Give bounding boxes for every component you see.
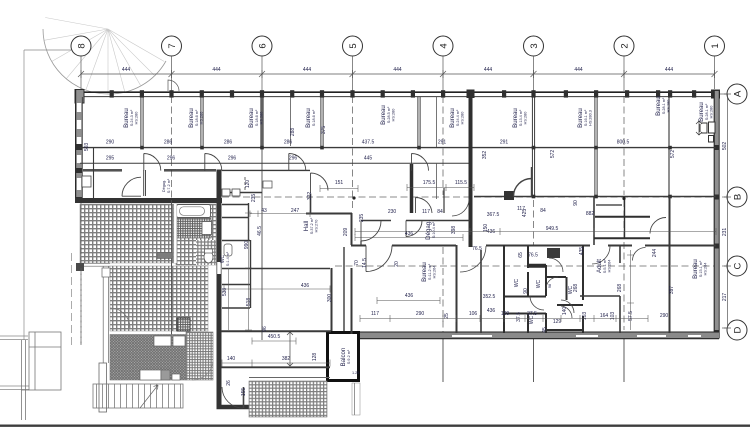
wall y331 left section <box>221 330 331 332</box>
door hall east <box>361 221 381 241</box>
svg-text:S:37.2 m²: S:37.2 m² <box>310 217 314 234</box>
grid line C <box>335 265 727 267</box>
svg-text:286: 286 <box>284 140 293 146</box>
svg-text:84: 84 <box>540 208 546 214</box>
svg-text:HS:280: HS:280 <box>135 112 139 125</box>
svg-text:572: 572 <box>670 150 676 159</box>
svg-text:117: 117 <box>422 209 430 215</box>
dims row y159 <box>106 156 373 162</box>
grid line 4 <box>442 56 444 382</box>
svg-text:70: 70 <box>354 260 360 266</box>
svg-text:290: 290 <box>660 313 669 319</box>
degag corridor label <box>162 178 171 193</box>
svg-text:291: 291 <box>438 140 447 146</box>
svg-text:445: 445 <box>364 156 373 162</box>
svg-text:949.5: 949.5 <box>546 226 559 232</box>
svg-text:WC: WC <box>514 278 520 287</box>
wall y220 x373-470 <box>361 220 470 222</box>
middle dims <box>227 180 669 362</box>
svg-text:S:18.6 m²: S:18.6 m² <box>312 109 316 126</box>
dim line y231 long <box>355 231 716 233</box>
grid line 6 <box>261 56 263 340</box>
svg-text:26: 26 <box>226 380 232 386</box>
grid bubble D <box>727 320 747 340</box>
svg-text:117: 117 <box>371 311 379 317</box>
office partition x322 <box>321 97 323 146</box>
right-section office front wall y197 <box>474 195 716 199</box>
svg-text:Bureau: Bureau <box>698 102 705 122</box>
svg-text:Balcon: Balcon <box>340 348 347 367</box>
svg-text:20: 20 <box>394 261 400 267</box>
svg-text:Bureau: Bureau <box>188 108 195 128</box>
wall x361 lower stub <box>360 241 362 246</box>
svg-text:HS:270: HS:270 <box>315 220 319 233</box>
top exterior window band <box>75 90 720 104</box>
door arc in terrace <box>110 308 130 328</box>
degag label 2 <box>0 0 1 1</box>
svg-text:140: 140 <box>227 356 236 362</box>
wall x457 vertical <box>456 245 458 333</box>
property line vertical left <box>23 50 25 340</box>
lower tile strip right <box>186 332 213 380</box>
svg-text:444: 444 <box>484 67 493 73</box>
svg-text:HS:280: HS:280 <box>200 112 204 125</box>
svg-text:Bureau: Bureau <box>692 259 699 279</box>
svg-text:444: 444 <box>393 67 402 73</box>
wc toilet <box>204 251 213 263</box>
washer appliance <box>202 222 212 235</box>
grid line 7 <box>171 56 173 380</box>
svg-text:90: 90 <box>573 200 579 206</box>
bureau label A1 right <box>655 96 671 116</box>
svg-text:Bureau: Bureau <box>380 105 387 125</box>
svg-text:HS:264: HS:264 <box>608 260 612 273</box>
svg-text:437.5: 437.5 <box>362 140 375 146</box>
svg-text:290: 290 <box>106 140 115 146</box>
svg-text:322: 322 <box>307 192 313 201</box>
svg-text:B: B <box>733 194 744 200</box>
svg-text:37.5: 37.5 <box>527 311 537 317</box>
svg-text:120: 120 <box>245 180 251 189</box>
thick wall x411 degag <box>410 164 414 213</box>
svg-text:444: 444 <box>574 67 583 73</box>
walkway band between terraces <box>80 263 110 266</box>
svg-text:436: 436 <box>487 308 496 314</box>
svg-text:268: 268 <box>573 284 579 293</box>
hall south wall y268 <box>222 268 330 270</box>
corridor lower wall left <box>83 170 216 171</box>
bathtub <box>177 205 211 218</box>
svg-text:S:7.2 m²: S:7.2 m² <box>167 178 171 193</box>
thick wall x471 <box>469 91 473 247</box>
bottom-left landing structure <box>0 336 29 390</box>
dim line y318 <box>360 318 648 320</box>
svg-text:43: 43 <box>261 208 267 214</box>
svg-text:Bureau: Bureau <box>655 96 662 116</box>
svg-text:25: 25 <box>444 313 450 319</box>
svg-text:444: 444 <box>122 67 131 73</box>
wall x331 vertical <box>331 268 333 331</box>
svg-text:S:28.1 m²: S:28.1 m² <box>662 97 666 114</box>
svg-text:503: 503 <box>84 143 90 152</box>
svg-text:990: 990 <box>244 241 250 250</box>
bottom exterior wall right <box>330 332 719 339</box>
svg-text:572: 572 <box>550 150 556 159</box>
svg-text:D: D <box>733 326 744 333</box>
door room S2 <box>633 248 646 261</box>
svg-text:S:28.5 m²: S:28.5 m² <box>387 106 391 123</box>
grid line 3 <box>533 56 535 382</box>
grid line 8 over hatch <box>80 205 82 345</box>
white furniture lower terrace <box>154 336 171 346</box>
svg-text:397: 397 <box>669 286 675 295</box>
hall west wall upper <box>222 192 262 194</box>
overhang dashed line left <box>71 253 73 345</box>
corridor end wall x93 <box>93 148 95 198</box>
svg-text:502: 502 <box>722 142 728 151</box>
bureau label SW <box>421 262 437 282</box>
corridor fixture box <box>82 176 91 187</box>
door top-middle small arc <box>168 80 179 91</box>
right exterior wall <box>714 90 719 339</box>
dim line 436 mid <box>355 234 463 241</box>
svg-text:HS:280: HS:280 <box>260 112 264 125</box>
fan sight lines top-left <box>44 18 164 95</box>
svg-text:155: 155 <box>241 388 247 397</box>
glazing line x436 <box>436 96 438 199</box>
balcon box <box>328 333 360 381</box>
bureau labels top band <box>123 102 714 128</box>
svg-text:8: 8 <box>77 43 88 48</box>
svg-text:7: 7 <box>167 43 178 48</box>
svg-text:A: A <box>733 90 744 97</box>
furniture top-right (radiator boxes) <box>696 121 715 142</box>
middle vertical dims <box>222 180 675 397</box>
dim line y340 "450.5" <box>252 338 296 345</box>
svg-text:352.5: 352.5 <box>483 294 496 300</box>
svg-text:HS:280: HS:280 <box>392 109 396 122</box>
svg-text:164: 164 <box>600 313 609 319</box>
grid line 8 <box>80 56 82 345</box>
bathroom lower dense tiles <box>196 240 216 265</box>
door office3 <box>412 154 429 171</box>
thick pier at x466-474 top <box>467 90 475 99</box>
svg-text:115.5: 115.5 <box>455 180 467 186</box>
small room walls left of hall <box>222 203 251 308</box>
svg-text:S:18.6 m²: S:18.6 m² <box>255 109 259 126</box>
svg-text:291: 291 <box>500 140 509 146</box>
door corridor left <box>122 177 141 196</box>
svg-text:518: 518 <box>246 298 252 307</box>
door at grid3 down <box>514 167 532 197</box>
svg-text:150: 150 <box>483 224 489 233</box>
door sub-room <box>650 218 666 234</box>
svg-text:S:13.4 m²: S:13.4 m² <box>519 109 523 126</box>
svg-text:800.5: 800.5 <box>617 140 630 146</box>
office partition x262 <box>261 97 263 146</box>
wall x481 vertical <box>480 250 482 333</box>
grid bubble 8 <box>71 36 91 56</box>
svg-text:375: 375 <box>321 126 327 135</box>
svg-text:96: 96 <box>262 326 268 332</box>
wc label left <box>220 251 230 266</box>
door office2 <box>205 154 222 171</box>
dark bench region A edge <box>157 253 172 259</box>
svg-text:444: 444 <box>303 67 312 73</box>
small wall y296 x580-616 <box>580 295 620 297</box>
svg-text:230: 230 <box>388 209 397 215</box>
office partition x419 <box>418 97 420 146</box>
svg-text:367.5: 367.5 <box>487 212 500 218</box>
door degag west <box>416 197 433 213</box>
svg-text:286: 286 <box>224 140 233 146</box>
door room SW <box>460 246 486 272</box>
office partition x533 (right section) <box>532 97 534 196</box>
svg-text:Bureau: Bureau <box>512 108 519 128</box>
grid line 5 <box>352 56 354 210</box>
WC cubicle walls <box>504 245 583 333</box>
white box walkway <box>102 268 110 277</box>
small fixtures above terrace wall <box>222 189 240 196</box>
stairs strip <box>93 384 183 408</box>
dims row y143 <box>106 140 630 146</box>
svg-text:286: 286 <box>164 140 173 146</box>
door bottom-left exit <box>222 387 244 408</box>
svg-text:209: 209 <box>343 228 349 237</box>
svg-text:45: 45 <box>542 327 548 333</box>
svg-text:14.5: 14.5 <box>362 258 368 268</box>
wall x670 vertical <box>669 196 671 333</box>
door wc small2 <box>561 300 574 313</box>
lower diagonal terrace <box>110 335 186 381</box>
svg-text:HS:280.3: HS:280.3 <box>589 110 593 126</box>
svg-text:175.5: 175.5 <box>423 180 436 186</box>
door right corridor <box>452 199 469 216</box>
dark pillar <box>177 318 190 331</box>
svg-text:57.5: 57.5 <box>628 311 634 321</box>
svg-text:290: 290 <box>416 311 425 317</box>
terrace tile area upper <box>80 204 176 263</box>
bureau label SE <box>692 259 708 279</box>
svg-text:352: 352 <box>482 151 488 160</box>
svg-text:S:15.1 m²: S:15.1 m² <box>699 260 703 277</box>
svg-text:235: 235 <box>251 194 257 203</box>
svg-text:90: 90 <box>523 288 529 294</box>
svg-text:3: 3 <box>529 43 540 48</box>
inner lines y377 <box>249 377 330 379</box>
bottom-right terrace tiles <box>249 381 327 417</box>
svg-text:140: 140 <box>562 307 568 316</box>
svg-text:436: 436 <box>301 283 310 289</box>
wc fixture left <box>224 244 232 256</box>
svg-text:2: 2 <box>620 43 631 48</box>
svg-text:S:16.1 m²: S:16.1 m² <box>584 109 588 126</box>
dim line x630 <box>627 250 634 330</box>
svg-text:76.5: 76.5 <box>528 253 538 259</box>
dim line y188 "151" <box>320 185 358 192</box>
corridor second line <box>80 162 470 164</box>
svg-text:1.25: 1.25 <box>352 371 359 375</box>
hall north wall y213 <box>306 213 352 215</box>
svg-text:65: 65 <box>518 252 524 258</box>
grid line 2 <box>623 56 625 382</box>
svg-text:46.5: 46.5 <box>257 226 263 236</box>
svg-text:296: 296 <box>228 156 237 162</box>
grid line 7 over hatch <box>171 200 173 377</box>
bottom separator line <box>0 425 750 427</box>
adult label <box>596 258 612 273</box>
svg-text:S:9.2 m²: S:9.2 m² <box>347 349 351 364</box>
svg-text:S:28.1 m²: S:28.1 m² <box>705 103 709 120</box>
svg-text:S:11.2 m²: S:11.2 m² <box>428 263 432 280</box>
svg-text:S:24.3 m²: S:24.3 m² <box>130 109 134 126</box>
degag label <box>425 220 436 240</box>
dim vertical x228 <box>228 268 230 330</box>
grid line 1 <box>714 56 716 89</box>
strip below balcon <box>352 383 360 415</box>
sub-room walls right corridor <box>594 199 650 238</box>
grid bubble 1 <box>705 36 725 56</box>
wall x594 vertical corridor <box>593 197 595 245</box>
mid-left vertical thick wall <box>217 170 222 410</box>
left exterior wall <box>76 90 83 204</box>
right dimension chain <box>724 94 731 328</box>
door wc small <box>530 296 544 310</box>
dim line y362 bottom-left <box>222 362 330 364</box>
vertical dims top band <box>84 126 676 160</box>
office partition x670 <box>668 97 670 196</box>
grid bubble 5 <box>343 36 363 56</box>
wall x344 vertical <box>343 247 345 331</box>
svg-text:HS:264: HS:264 <box>704 263 708 276</box>
door office2b <box>289 154 306 171</box>
svg-text:109: 109 <box>501 311 510 317</box>
svg-text:398: 398 <box>451 226 457 235</box>
svg-text:882: 882 <box>586 211 595 217</box>
dim line 436 hall <box>224 286 330 293</box>
svg-text:382: 382 <box>282 356 291 362</box>
dim vertical x248 <box>248 210 250 330</box>
svg-text:HS:280: HS:280 <box>667 100 671 113</box>
dim line y300 <box>377 297 440 304</box>
svg-text:103: 103 <box>582 312 588 321</box>
door swing arc top-left <box>43 29 166 94</box>
door room S1 <box>592 246 610 264</box>
svg-text:Bureau: Bureau <box>248 108 255 128</box>
svg-text:HS:280: HS:280 <box>461 112 465 125</box>
dim line 247 <box>250 211 310 218</box>
wall x144 lower <box>144 170 146 196</box>
svg-text:444: 444 <box>665 67 674 73</box>
small fixtures near hall top <box>263 181 272 188</box>
svg-text:Adult: Adult <box>596 259 603 273</box>
svg-text:1: 1 <box>710 43 721 48</box>
vertical dim x290 <box>287 332 293 366</box>
svg-text:436: 436 <box>405 231 414 237</box>
svg-text:HS:264: HS:264 <box>433 266 437 279</box>
svg-text:288: 288 <box>290 128 296 137</box>
svg-text:217: 217 <box>722 293 728 302</box>
svg-text:6: 6 <box>258 43 269 48</box>
grid bubble 7 <box>162 36 182 56</box>
right dimension labels <box>722 142 728 302</box>
grid line D <box>722 327 727 329</box>
grid bubble B <box>727 187 747 207</box>
svg-text:244: 244 <box>652 249 658 258</box>
svg-text:247: 247 <box>291 208 300 214</box>
svg-text:S:24.4 m²: S:24.4 m² <box>456 109 460 126</box>
svg-text:76.5: 76.5 <box>472 246 482 252</box>
svg-text:538: 538 <box>222 288 228 297</box>
grid bubble A <box>727 84 747 104</box>
door degag south <box>406 221 422 237</box>
grid bubble C <box>727 256 747 276</box>
right-section corridor south wall y245 <box>351 245 716 247</box>
office front dim line (long) <box>80 146 716 150</box>
hall label <box>303 217 319 234</box>
shaft dark block <box>547 248 560 258</box>
svg-text:296: 296 <box>289 156 298 162</box>
bathroom floor tiles <box>176 204 216 265</box>
corner block top-left <box>75 90 84 104</box>
white side box stairs <box>99 363 107 412</box>
svg-text:128: 128 <box>312 353 318 362</box>
svg-text:98: 98 <box>548 284 552 288</box>
svg-text:103: 103 <box>610 312 616 321</box>
dim line y187 "175/115" <box>407 184 474 191</box>
svg-text:HS:280: HS:280 <box>710 106 714 119</box>
top dimension chain line <box>78 70 718 78</box>
white separator bath <box>174 204 177 263</box>
corner wall stub <box>76 263 84 271</box>
property line horizontal top-left <box>24 49 71 51</box>
svg-text:S:5.1 m²: S:5.1 m² <box>603 258 607 273</box>
svg-text:106: 106 <box>469 311 478 317</box>
walkway vertical lines <box>103 266 108 412</box>
shower dense block <box>177 218 212 238</box>
svg-text:37.5: 37.5 <box>516 312 522 322</box>
wall x620 vertical <box>619 245 621 333</box>
wall y366 bottom-left room <box>221 366 330 368</box>
svg-text:HS:280: HS:280 <box>524 112 528 125</box>
svg-text:5: 5 <box>348 43 359 48</box>
terrace tile area lower <box>110 266 208 331</box>
svg-text:151: 151 <box>335 180 344 186</box>
svg-text:84: 84 <box>437 209 443 215</box>
grid bubble 6 <box>252 36 272 56</box>
svg-text:S:1.4 m²: S:1.4 m² <box>226 251 230 266</box>
wall x444 stub <box>443 188 445 213</box>
svg-text:C: C <box>733 262 744 269</box>
svg-text:S:18.6 m²: S:18.6 m² <box>195 109 199 126</box>
grid line B <box>222 196 727 198</box>
svg-text:450.5: 450.5 <box>268 334 281 340</box>
svg-text:436: 436 <box>405 293 414 299</box>
svg-text:4: 4 <box>439 43 450 48</box>
corner block top-right <box>711 90 720 99</box>
svg-text:444: 444 <box>212 67 221 73</box>
svg-text:231: 231 <box>722 228 728 237</box>
grid line A <box>720 93 727 95</box>
svg-text:235: 235 <box>359 214 365 223</box>
office glazing x290 <box>290 97 292 146</box>
svg-text:WC: WC <box>536 279 542 288</box>
dimension tick lines interior <box>221 184 716 378</box>
svg-text:300: 300 <box>327 294 333 303</box>
svg-text:Dégag.: Dégag. <box>162 180 166 192</box>
office partition x142 <box>141 97 143 146</box>
office partition x596 <box>595 97 597 196</box>
